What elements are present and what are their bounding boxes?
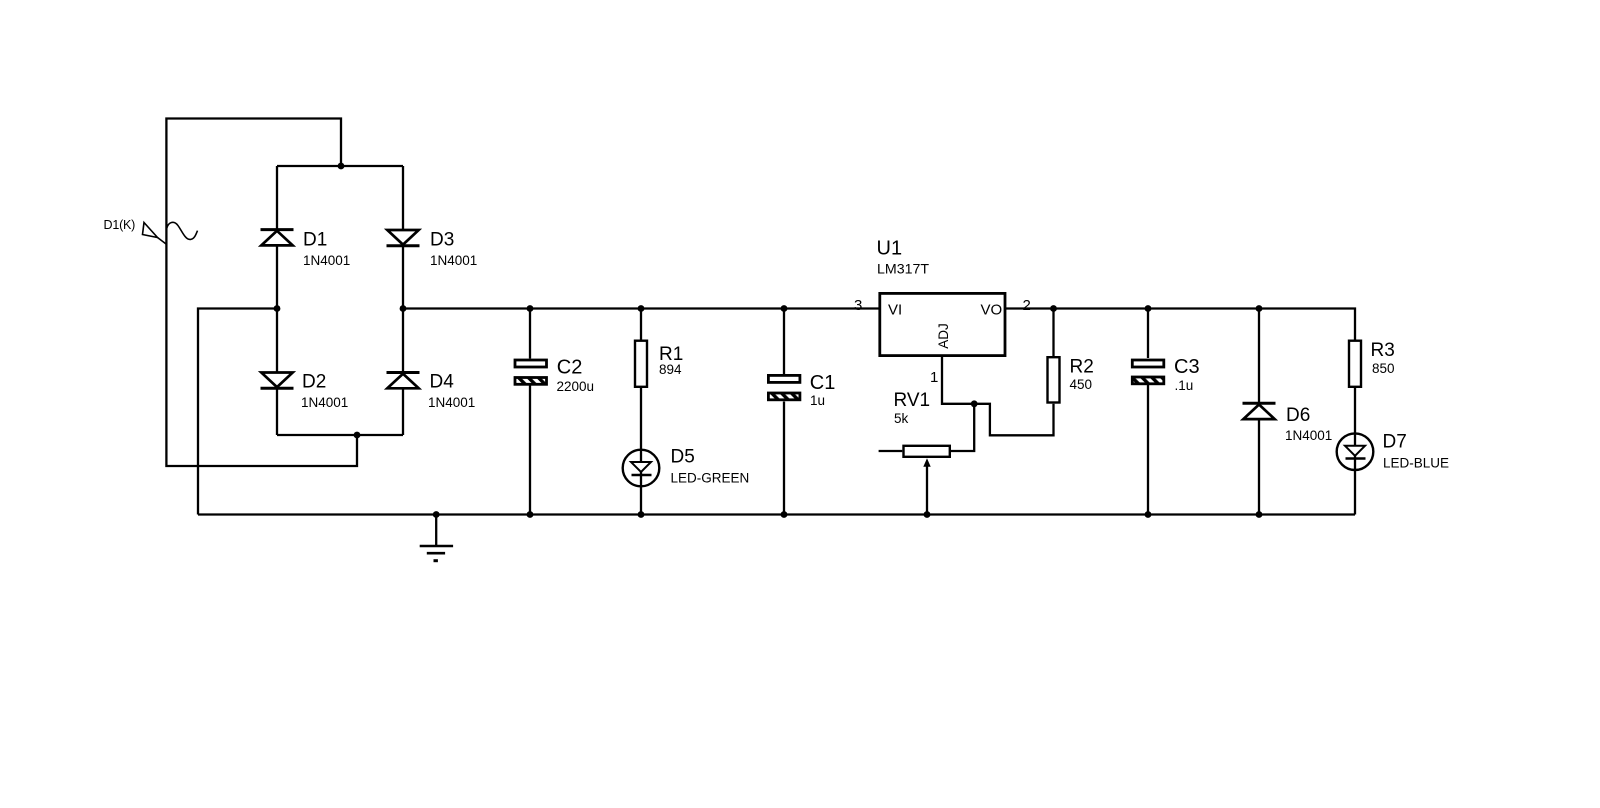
wire VO rail bbox=[1006, 309, 1355, 340]
svg-text:1N4001: 1N4001 bbox=[301, 395, 348, 410]
junction node bridge top bbox=[338, 163, 345, 170]
svg-text:VI: VI bbox=[888, 302, 902, 319]
wire U1 ADJ bbox=[942, 357, 974, 404]
junction node C3 bottom bbox=[1145, 511, 1152, 518]
svg-text:D4: D4 bbox=[430, 372, 455, 393]
diode D6 bbox=[1243, 403, 1276, 419]
svg-text:850: 850 bbox=[1372, 361, 1395, 376]
potentiometer RV1 body bbox=[904, 446, 950, 457]
svg-text:D2: D2 bbox=[302, 372, 326, 393]
wire RV1 left stub bbox=[879, 450, 903, 452]
svg-text:2200u: 2200u bbox=[557, 379, 595, 394]
svg-text:LM317T: LM317T bbox=[877, 262, 929, 278]
junction node C1 top bbox=[781, 305, 788, 312]
wire RV1 right to junction bbox=[951, 404, 974, 451]
svg-text:RV1: RV1 bbox=[894, 390, 931, 411]
diode D1 bbox=[261, 230, 294, 246]
svg-text:1: 1 bbox=[930, 369, 938, 386]
svg-text:LED-GREEN: LED-GREEN bbox=[671, 471, 750, 486]
LED D7 bbox=[1337, 433, 1374, 470]
diode D2 bbox=[261, 373, 294, 389]
wire bottom rail bbox=[198, 513, 1355, 515]
svg-text:1N4001: 1N4001 bbox=[303, 253, 350, 268]
svg-text:D3: D3 bbox=[430, 230, 454, 251]
wire C2 branch bbox=[529, 309, 531, 359]
wire RV1 wiper bbox=[926, 464, 928, 515]
junction node ground bbox=[433, 511, 440, 518]
svg-text:1N4001: 1N4001 bbox=[1285, 428, 1332, 443]
wire C3 branch bbox=[1147, 309, 1149, 359]
junction node mid-left bbox=[274, 305, 281, 312]
resistor R1 bbox=[635, 341, 647, 387]
potentiometer RV1 wiper arrow bbox=[923, 458, 930, 467]
junction node C2 bottom bbox=[527, 511, 534, 518]
svg-text:3: 3 bbox=[854, 297, 862, 314]
capacitor C3 bbox=[1132, 360, 1164, 384]
wire D3 branch bbox=[402, 166, 404, 230]
svg-text:1N4001: 1N4001 bbox=[428, 395, 475, 410]
wire R3-D7 branch bbox=[1354, 388, 1356, 515]
resistor R3 bbox=[1349, 341, 1361, 387]
junction node VO bbox=[1050, 305, 1057, 312]
junction node wiper bottom bbox=[924, 511, 931, 518]
svg-text:2: 2 bbox=[1023, 297, 1031, 314]
svg-text:894: 894 bbox=[659, 362, 682, 377]
wire R1-D5 branch bbox=[640, 309, 642, 340]
junction node mid-right bbox=[400, 305, 407, 312]
LED D5 bbox=[623, 450, 660, 487]
junction node bridge bottom bbox=[354, 432, 361, 439]
capacitor C1 bbox=[768, 375, 800, 399]
wire D6 branch bbox=[1258, 309, 1260, 404]
svg-text:C1: C1 bbox=[810, 372, 836, 394]
wire C1 branch bbox=[783, 309, 785, 375]
svg-text:C3: C3 bbox=[1174, 356, 1200, 378]
svg-text:C2: C2 bbox=[557, 357, 583, 379]
svg-text:R3: R3 bbox=[1371, 340, 1395, 361]
op-amp U1 box LM317T bbox=[880, 293, 1005, 355]
AC probe D1(K) bbox=[143, 222, 198, 244]
svg-text:U1: U1 bbox=[877, 238, 903, 260]
junction node ADJ/RV1/R2 bbox=[971, 400, 978, 407]
svg-text:D5: D5 bbox=[671, 447, 695, 468]
svg-text:.1u: .1u bbox=[1175, 378, 1194, 393]
junction node C3 top bbox=[1145, 305, 1152, 312]
wire R2 bottom return bbox=[974, 404, 1053, 436]
svg-text:ADJ: ADJ bbox=[936, 323, 951, 349]
wire main rail to U1 bbox=[403, 307, 880, 309]
wire D2 branch bbox=[276, 309, 278, 373]
wire R2 top bbox=[1052, 309, 1054, 357]
junction node C2 top bbox=[527, 305, 534, 312]
svg-text:450: 450 bbox=[1070, 377, 1093, 392]
svg-text:R2: R2 bbox=[1070, 357, 1094, 378]
svg-text:D1(K): D1(K) bbox=[104, 218, 136, 232]
svg-text:LED-BLUE: LED-BLUE bbox=[1383, 456, 1449, 471]
svg-text:1u: 1u bbox=[810, 393, 825, 408]
junction node R1 top bbox=[638, 305, 645, 312]
diode D4 bbox=[387, 373, 420, 389]
ground bbox=[420, 515, 453, 561]
resistor R2 bbox=[1048, 357, 1060, 402]
wire D4 branch bbox=[402, 309, 404, 373]
junction node D6 top bbox=[1256, 305, 1263, 312]
diode D3 bbox=[387, 230, 420, 246]
svg-text:D6: D6 bbox=[1286, 405, 1310, 426]
junction node D5 bottom bbox=[638, 511, 645, 518]
wire bridge top bbox=[277, 165, 403, 167]
wire bridge bottom bbox=[277, 434, 403, 436]
wire mid-left to bottom rail bbox=[198, 309, 277, 515]
wire AC loop left bbox=[166, 119, 357, 467]
svg-text:1N4001: 1N4001 bbox=[430, 253, 477, 268]
svg-text:5k: 5k bbox=[894, 411, 909, 426]
junction node C1 bottom bbox=[781, 511, 788, 518]
svg-text:D1: D1 bbox=[303, 230, 327, 251]
wire D1 branch bbox=[276, 166, 278, 229]
svg-text:D7: D7 bbox=[1383, 432, 1407, 453]
junction node D6 bottom bbox=[1256, 511, 1263, 518]
AC sine squiggle bbox=[167, 222, 198, 239]
capacitor C2 bbox=[515, 360, 547, 384]
svg-text:VO: VO bbox=[981, 302, 1003, 319]
